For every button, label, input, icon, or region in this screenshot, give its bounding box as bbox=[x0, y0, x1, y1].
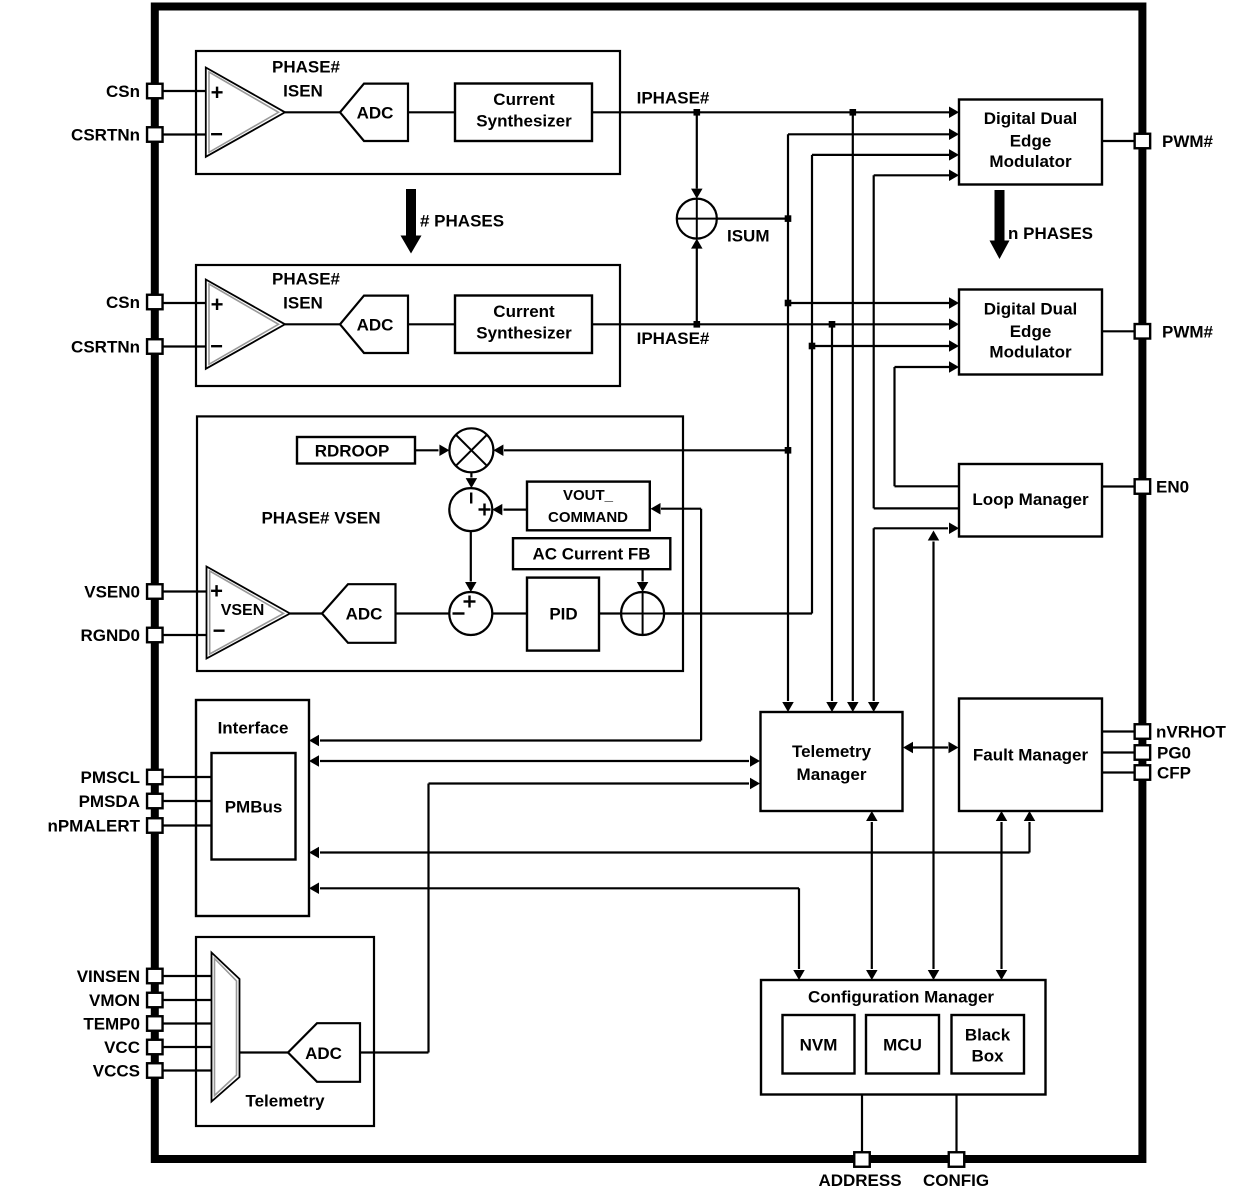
svg-text:VCCS: VCCS bbox=[93, 1061, 140, 1080]
svg-text:−: − bbox=[210, 122, 223, 147]
svg-text:AC Current FB: AC Current FB bbox=[532, 544, 650, 563]
svg-text:EN0: EN0 bbox=[1156, 477, 1189, 496]
svg-text:Current: Current bbox=[493, 302, 555, 321]
svg-text:PWM#: PWM# bbox=[1162, 322, 1214, 341]
svg-text:Edge: Edge bbox=[1010, 322, 1052, 341]
svg-text:nVRHOT: nVRHOT bbox=[1156, 722, 1227, 741]
svg-text:Configuration Manager: Configuration Manager bbox=[808, 987, 994, 1006]
svg-text:Edge: Edge bbox=[1010, 131, 1052, 150]
svg-text:+: + bbox=[211, 292, 224, 317]
svg-text:Modulator: Modulator bbox=[989, 152, 1072, 171]
svg-text:CONFIG: CONFIG bbox=[923, 1171, 989, 1190]
svg-text:PID: PID bbox=[549, 604, 577, 623]
svg-text:VMON: VMON bbox=[89, 991, 140, 1010]
svg-text:TEMP0: TEMP0 bbox=[83, 1014, 140, 1033]
svg-text:CSn: CSn bbox=[106, 82, 140, 101]
svg-text:NVM: NVM bbox=[800, 1035, 838, 1054]
svg-text:ADC: ADC bbox=[305, 1044, 342, 1063]
svg-text:Telemetry: Telemetry bbox=[245, 1091, 325, 1110]
svg-text:PMSCL: PMSCL bbox=[81, 768, 141, 787]
svg-text:−: − bbox=[210, 334, 223, 359]
svg-text:PWM#: PWM# bbox=[1162, 132, 1214, 151]
svg-text:IPHASE#: IPHASE# bbox=[637, 329, 710, 348]
svg-text:PHASE#: PHASE# bbox=[272, 269, 341, 288]
svg-text:Modulator: Modulator bbox=[989, 342, 1072, 361]
svg-text:CSRTNn: CSRTNn bbox=[71, 125, 140, 144]
svg-text:Synthesizer: Synthesizer bbox=[476, 323, 572, 342]
svg-text:Loop Manager: Loop Manager bbox=[972, 490, 1089, 509]
svg-text:# PHASES: # PHASES bbox=[420, 211, 504, 230]
svg-text:ADC: ADC bbox=[346, 604, 383, 623]
svg-text:+: + bbox=[210, 579, 223, 604]
svg-text:+: + bbox=[211, 80, 224, 105]
svg-text:Digital Dual: Digital Dual bbox=[984, 299, 1078, 318]
svg-text:VSEN: VSEN bbox=[221, 602, 265, 619]
svg-text:VOUT_: VOUT_ bbox=[563, 487, 614, 504]
svg-text:Black: Black bbox=[965, 1025, 1011, 1044]
svg-text:−: − bbox=[213, 618, 226, 643]
svg-text:ISEN: ISEN bbox=[283, 293, 323, 312]
svg-text:VINSEN: VINSEN bbox=[77, 967, 140, 986]
svg-text:nPMALERT: nPMALERT bbox=[47, 816, 140, 835]
svg-text:n PHASES: n PHASES bbox=[1008, 224, 1093, 243]
svg-text:CFP: CFP bbox=[1157, 763, 1191, 782]
svg-text:CSn: CSn bbox=[106, 293, 140, 312]
svg-text:Digital Dual: Digital Dual bbox=[984, 109, 1078, 128]
svg-text:CSRTNn: CSRTNn bbox=[71, 337, 140, 356]
svg-text:PG0: PG0 bbox=[1157, 743, 1191, 762]
svg-text:ISEN: ISEN bbox=[283, 81, 323, 100]
svg-text:Interface: Interface bbox=[218, 718, 289, 737]
svg-text:Current: Current bbox=[493, 90, 555, 109]
svg-text:Box: Box bbox=[971, 1046, 1004, 1065]
svg-text:ADC: ADC bbox=[357, 104, 394, 123]
svg-text:PHASE#: PHASE# bbox=[272, 57, 341, 76]
svg-text:VSEN0: VSEN0 bbox=[84, 582, 140, 601]
svg-text:Fault Manager: Fault Manager bbox=[973, 745, 1089, 764]
svg-text:PHASE# VSEN: PHASE# VSEN bbox=[261, 508, 380, 527]
svg-text:Manager: Manager bbox=[797, 765, 867, 784]
svg-text:ADC: ADC bbox=[357, 316, 394, 335]
svg-text:PMSDA: PMSDA bbox=[79, 792, 140, 811]
svg-text:PMBus: PMBus bbox=[225, 797, 283, 816]
svg-text:Telemetry: Telemetry bbox=[792, 742, 872, 761]
svg-text:Synthesizer: Synthesizer bbox=[476, 111, 572, 130]
svg-text:VCC: VCC bbox=[104, 1038, 140, 1057]
svg-text:RDROOP: RDROOP bbox=[315, 442, 390, 461]
svg-text:COMMAND: COMMAND bbox=[548, 509, 628, 526]
svg-text:IPHASE#: IPHASE# bbox=[637, 88, 710, 107]
svg-text:MCU: MCU bbox=[883, 1035, 922, 1054]
svg-text:ADDRESS: ADDRESS bbox=[818, 1171, 901, 1190]
svg-text:RGND0: RGND0 bbox=[80, 626, 140, 645]
svg-text:ISUM: ISUM bbox=[727, 226, 770, 245]
